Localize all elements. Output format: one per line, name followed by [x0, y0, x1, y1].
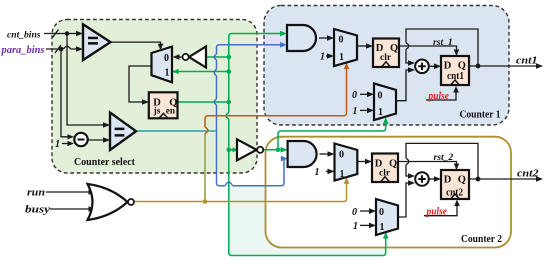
- wire AND1 out: [319, 37, 329, 39]
- AND gate A1: [287, 25, 316, 51]
- svg-text:1: 1: [380, 222, 385, 233]
- mux M1 counter1: [334, 29, 357, 66]
- arrowhead olive mux select c2: [344, 177, 350, 184]
- wire green to AND1: [232, 33, 282, 35]
- svg-text:Counter 1: Counter 1: [460, 108, 501, 120]
- wire mux1 out to js_en D: [129, 66, 152, 102]
- wire busy: [50, 208, 90, 210]
- mux M2 counter2: [376, 199, 398, 235]
- comparator U2 (=): [110, 113, 136, 151]
- wire const 1 mux2 c2: [360, 224, 371, 226]
- wire cnt_bins to comparator2: [67, 34, 105, 126]
- svg-text:D: D: [444, 175, 452, 186]
- flip-flop clr1: [373, 39, 399, 68]
- subtractor circle: [74, 133, 87, 146]
- svg-text:cnt1: cnt1: [516, 55, 538, 67]
- wire comparator1 out to mux select: [111, 42, 161, 45]
- wire mux2 c1 out to adder: [396, 70, 410, 101]
- wire mux to clr2 D: [357, 161, 367, 163]
- wire feedback cnt1: [406, 29, 478, 66]
- arrowhead orange mux select c1: [344, 63, 350, 70]
- svg-text:1: 1: [340, 169, 345, 180]
- svg-text:Q: Q: [390, 43, 398, 54]
- wire adder1 out: [429, 65, 436, 67]
- svg-text:para_bins: para_bins: [0, 45, 44, 56]
- inverter G1 (points left): [189, 47, 206, 68]
- bus slash cnt_bins: [53, 30, 59, 38]
- wire const 0 mux2 c1: [360, 93, 369, 95]
- region Counter 2 (olive box): [266, 137, 512, 248]
- wire AND2 out: [319, 153, 329, 155]
- wire run: [46, 191, 90, 193]
- svg-text:js: js: [153, 106, 161, 116]
- wire const 1 to subtractor: [62, 143, 69, 145]
- svg-text:0: 0: [379, 207, 384, 218]
- svg-text:cnt2: cnt2: [446, 188, 463, 199]
- wire rst_2: [398, 162, 457, 166]
- bus slash para_bins: [55, 45, 61, 53]
- adder1: [415, 60, 429, 74]
- svg-text:1: 1: [339, 52, 344, 63]
- wire subtractor to comparator2: [88, 139, 105, 141]
- svg-text:busy: busy: [25, 205, 50, 216]
- adder2: [415, 172, 429, 186]
- flip-flop js_en: [149, 92, 178, 118]
- wire green vertical channel: [226, 34, 386, 256]
- svg-text:0: 0: [164, 53, 169, 64]
- svg-text:0: 0: [339, 34, 344, 45]
- wire blue vertical channel: [214, 45, 219, 131]
- svg-text:en: en: [166, 106, 176, 116]
- svg-text:run: run: [27, 186, 45, 198]
- region highlight cyan: [228, 186, 385, 256]
- wire blue down to AND2: [217, 131, 285, 186]
- wire adder2 out: [429, 178, 436, 180]
- svg-text:1: 1: [55, 139, 60, 150]
- region Counter select (green dashed): [52, 20, 257, 174]
- svg-text:Q: Q: [389, 159, 397, 170]
- wire pulse1: [426, 91, 456, 100]
- wire rst_1: [399, 46, 457, 51]
- svg-text:1: 1: [353, 106, 358, 117]
- svg-text:1: 1: [320, 51, 325, 62]
- svg-text:0: 0: [378, 90, 383, 101]
- wire orange to counter1 mux select: [205, 67, 347, 127]
- wire green to mux1 input 1: [173, 71, 229, 73]
- svg-text:D: D: [444, 60, 452, 71]
- wire feedback cnt2: [406, 143, 478, 179]
- svg-text:cnt2: cnt2: [517, 167, 539, 179]
- mux M1 counter2: [335, 144, 358, 181]
- junction dots: [65, 31, 70, 36]
- wire green to inverter1: [207, 56, 229, 58]
- wire NOR output olive: [135, 182, 347, 202]
- mux M2 counter1: [374, 83, 396, 120]
- NOR gate: [88, 184, 128, 220]
- region Counter 1 (blue dashed): [264, 6, 509, 126]
- label = comparator2: [115, 128, 125, 137]
- svg-text:rst_1: rst_1: [433, 37, 453, 48]
- flip-flop clr2: [372, 154, 398, 183]
- arrowheads black: [68, 31, 544, 229]
- wire mux to clr1 D: [357, 45, 368, 47]
- AND gate A2: [288, 141, 317, 167]
- svg-text:Counter select: Counter select: [74, 156, 135, 168]
- svg-text:0: 0: [352, 207, 357, 218]
- svg-text:Q: Q: [458, 175, 466, 186]
- wire cnt2 output: [469, 178, 538, 180]
- inverter G2 (points right): [237, 139, 257, 160]
- wire para_bins to subtractor: [61, 49, 69, 137]
- wire inverter2 out net: [264, 122, 386, 150]
- wire green to inverter2: [229, 149, 233, 151]
- wire const 1 mux2 c1: [360, 109, 369, 111]
- flip-flop cnt1: [441, 56, 469, 85]
- svg-text:Q: Q: [458, 60, 466, 71]
- wire mux2 c2 out to adder: [398, 183, 410, 217]
- svg-text:1: 1: [353, 221, 358, 232]
- wire js_en Q green: [178, 101, 229, 103]
- svg-text:1: 1: [315, 167, 320, 178]
- wire blue to AND1: [220, 44, 282, 46]
- mux M0 counter select: [152, 47, 173, 83]
- comparator U1 (=): [83, 24, 111, 60]
- wire const 1 to mux c1: [326, 55, 329, 57]
- svg-text:Counter 2: Counter 2: [461, 233, 502, 245]
- wire cnt_bins input: [44, 33, 78, 35]
- wire para_bins input: [46, 46, 78, 49]
- wire cnt1 output: [469, 65, 538, 67]
- wire comparator2 out teal: [136, 130, 216, 132]
- wire olive-green riser from NOR junction: [204, 134, 206, 200]
- arrowheads green: [172, 31, 389, 239]
- svg-text:cnt_bins: cnt_bins: [7, 29, 41, 40]
- svg-text:clr: clr: [379, 169, 391, 179]
- svg-text:pulse: pulse: [428, 91, 450, 102]
- svg-text:0: 0: [352, 90, 357, 101]
- svg-text:cnt1: cnt1: [447, 71, 464, 82]
- wire pulse2: [424, 204, 457, 216]
- label = comparator1: [88, 37, 98, 45]
- wire const 1 mux c2: [326, 170, 330, 172]
- svg-text:1: 1: [165, 68, 170, 79]
- svg-text:rst_2: rst_2: [434, 152, 454, 163]
- wire hop orange over teal: [205, 127, 208, 133]
- svg-text:1: 1: [378, 107, 383, 118]
- flip-flop cnt2: [441, 170, 469, 199]
- svg-text:clr: clr: [380, 53, 392, 63]
- wire const 0 mux2 c2: [360, 210, 371, 212]
- svg-text:pulse: pulse: [426, 207, 448, 218]
- svg-text:0: 0: [339, 150, 344, 161]
- arrowheads blue: [280, 42, 288, 161]
